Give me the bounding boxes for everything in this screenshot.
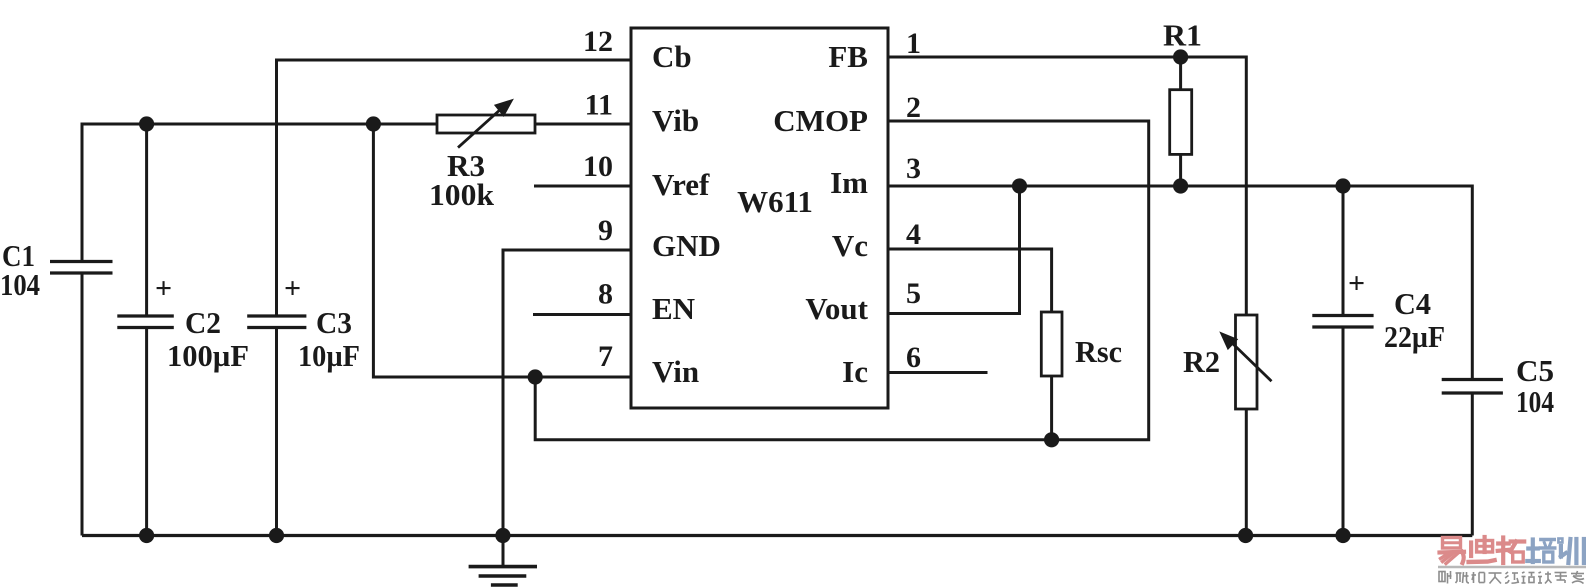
svg-text:1: 1 (906, 27, 921, 60)
svg-text:FB: FB (828, 39, 868, 74)
svg-text:Ic: Ic (842, 354, 868, 389)
svg-text:100k: 100k (429, 177, 495, 212)
svg-text:8: 8 (598, 278, 613, 311)
svg-text:Vref: Vref (652, 167, 710, 202)
svg-text:7: 7 (598, 340, 613, 373)
svg-text:100µF: 100µF (167, 338, 249, 373)
svg-text:5: 5 (906, 277, 921, 310)
svg-text:2: 2 (906, 91, 921, 124)
svg-text:Cb: Cb (652, 39, 692, 74)
svg-text:CMOP: CMOP (773, 103, 868, 138)
svg-text:12: 12 (583, 25, 613, 58)
svg-text:R1: R1 (1163, 18, 1202, 53)
svg-text:Vout: Vout (805, 291, 868, 326)
svg-text:C5: C5 (1516, 353, 1554, 388)
svg-text:6: 6 (906, 341, 921, 374)
svg-text:Vib: Vib (652, 103, 699, 138)
svg-text:9: 9 (598, 214, 613, 247)
svg-text:Rsc: Rsc (1075, 334, 1122, 369)
svg-text:Vin: Vin (652, 354, 699, 389)
svg-text:C2: C2 (185, 305, 221, 340)
svg-text:+: + (284, 272, 301, 305)
svg-text:Im: Im (830, 165, 868, 200)
svg-text:3: 3 (906, 152, 921, 185)
svg-text:11: 11 (585, 89, 613, 122)
svg-text:C3: C3 (316, 305, 352, 340)
svg-text:GND: GND (652, 228, 721, 263)
svg-text:C4: C4 (1394, 286, 1431, 321)
svg-text:10µF: 10µF (298, 338, 360, 373)
svg-text:104: 104 (0, 267, 40, 302)
svg-text:104: 104 (1516, 384, 1554, 419)
svg-text:22µF: 22µF (1384, 319, 1445, 354)
svg-text:EN: EN (652, 291, 695, 326)
svg-text:+: + (155, 272, 172, 305)
svg-text:W611: W611 (737, 184, 813, 219)
svg-text:R2: R2 (1183, 344, 1220, 379)
svg-text:Vc: Vc (832, 228, 868, 263)
svg-text:4: 4 (906, 218, 921, 251)
svg-text:+: + (1348, 267, 1365, 300)
svg-text:10: 10 (583, 150, 613, 183)
